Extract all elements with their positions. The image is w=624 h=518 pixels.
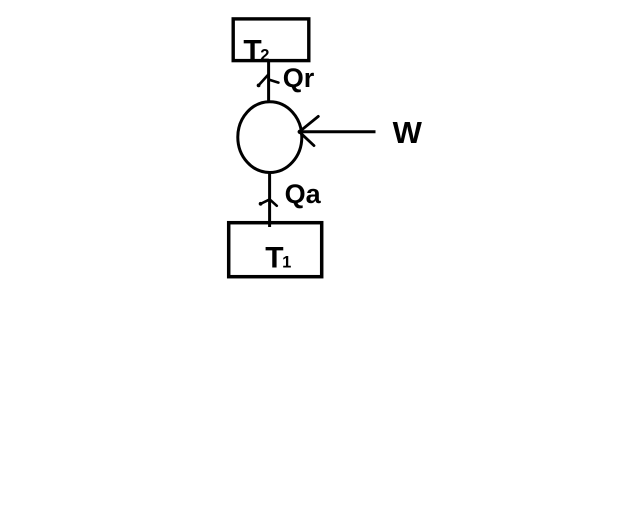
svg-text:Qr: Qr [283, 63, 315, 93]
svg-text:W: W [393, 115, 423, 150]
reservoir box T1 [229, 223, 322, 277]
arrowhead Qr left barb [258, 74, 268, 86]
svg-text:Qa: Qa [285, 179, 322, 209]
svg-text:T: T [265, 242, 283, 275]
wire Qr (box T2 to circle) [267, 60, 270, 101]
wire W (horizontal) [301, 130, 376, 133]
arrowhead Qa blob [259, 202, 263, 206]
arrowhead W upper barb [299, 116, 318, 131]
arrowhead Qr blob [257, 84, 261, 88]
svg-text:1: 1 [282, 254, 291, 272]
arrowhead Qr right barb [269, 80, 279, 83]
arrowhead Qa left barb [260, 199, 269, 204]
compressor circle [238, 102, 302, 173]
arrowhead Qa right barb [271, 200, 277, 206]
wire Qa (circle to box T1) [268, 173, 271, 227]
arrowhead W tip blob [298, 130, 302, 134]
svg-text:T: T [243, 35, 261, 68]
arrowhead W lower barb [299, 132, 314, 146]
reservoir box T2 [233, 19, 309, 61]
